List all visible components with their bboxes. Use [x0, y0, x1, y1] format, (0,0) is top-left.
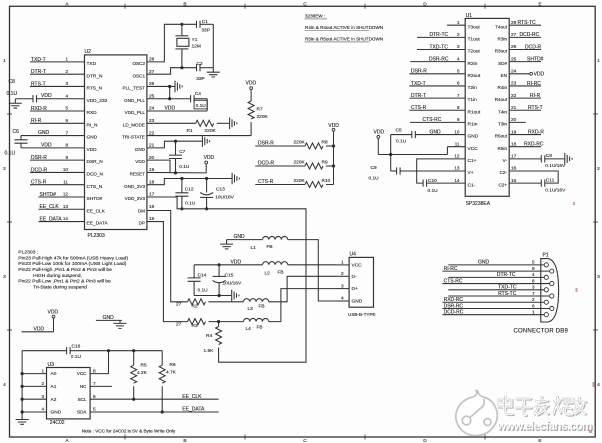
svg-text:8: 8 — [65, 143, 68, 148]
svg-text:220K: 220K — [205, 128, 217, 134]
svg-text:OSC1: OSC1 — [132, 73, 145, 78]
svg-text:33P: 33P — [201, 28, 210, 34]
junction C13 top — [205, 177, 208, 180]
U2 pin 12 SHTD# — [63, 192, 103, 202]
wire net RXD-R to U1 pin 19 — [509, 129, 544, 135]
wire RESET (U2 pin 19) to VDD — [147, 171, 206, 173]
U4 pin 3 D+ — [336, 283, 358, 292]
svg-text:1: 1 — [65, 57, 68, 62]
svg-text:Pin22 Pull-High ,Pin1 & Pin2 &: Pin22 Pull-High ,Pin1 & Pin2 & Pin3 will… — [18, 267, 112, 273]
wire GND_PLL (U2 pin 25) — [147, 98, 191, 100]
svg-text:T4in: T4in — [498, 109, 507, 114]
svg-text:C2-: C2- — [500, 170, 508, 175]
svg-text:SCL: SCL — [78, 397, 87, 402]
svg-text:DSR_N: DSR_N — [87, 159, 104, 165]
svg-text:R2: R2 — [192, 303, 198, 309]
svg-text:0.1U: 0.1U — [5, 151, 16, 157]
svg-text:2: 2 — [41, 381, 44, 386]
svg-text:0.1U/16V: 0.1U/16V — [545, 187, 566, 193]
svg-text:27: 27 — [176, 302, 182, 308]
svg-text:TXD: TXD — [87, 61, 97, 67]
svg-text:R5: R5 — [141, 362, 147, 368]
U1 pin 11 VCC — [455, 141, 478, 151]
svg-text:SHTD#: SHTD# — [40, 192, 57, 198]
capacitor C8 0.1U/16V on U1 V- (pin 17) — [509, 153, 566, 169]
wire net EE_DATA to U2 pin 14 — [39, 216, 85, 222]
P1 pin 3 net TXD-TC — [448, 285, 548, 292]
svg-text:D+: D+ — [352, 286, 358, 292]
U2 pin 17 VDD_3V3 — [125, 192, 155, 201]
wire GND (U2 pin 21) to ground — [147, 141, 202, 148]
junction C7 top — [174, 140, 177, 143]
svg-text:12: 12 — [63, 192, 69, 197]
U1 pin 27 R3in — [498, 32, 517, 41]
capacitor C13 10U/16V — [200, 179, 235, 209]
svg-text:RTS-TC: RTS-TC — [518, 20, 537, 26]
svg-text:T2out: T2out — [468, 49, 481, 55]
svg-text:GND: GND — [51, 410, 62, 416]
svg-text:CTS-RC: CTS-RC — [444, 278, 463, 284]
svg-text:TRI-STATE: TRI-STATE — [122, 135, 145, 140]
svg-text:7: 7 — [457, 93, 460, 98]
svg-text:24C02: 24C02 — [50, 420, 65, 426]
U1 pin 13 V+ — [454, 166, 473, 176]
svg-text:C5: C5 — [396, 127, 402, 133]
U3 pin 5 SDA — [77, 407, 96, 415]
svg-text:RTS-T: RTS-T — [528, 105, 543, 111]
capacitor C14 0.1U — [188, 265, 209, 296]
svg-text:1: 1 — [457, 20, 460, 25]
svg-text:0.1U: 0.1U — [196, 103, 207, 109]
svg-text:GND: GND — [135, 147, 146, 152]
svg-text:TXD-TC: TXD-TC — [498, 285, 517, 291]
U2 pin 23 LD_MODE — [123, 118, 155, 127]
U1 pin 6 T2in — [457, 81, 477, 91]
svg-text:VDD: VDD — [48, 310, 59, 316]
svg-text:2: 2 — [532, 297, 535, 302]
svg-text:TXD-T: TXD-T — [31, 57, 46, 63]
svg-text:3: 3 — [532, 285, 535, 290]
junction R9 at VDD rail — [332, 164, 335, 167]
U2 pin 28 OSC2 — [132, 57, 154, 66]
svg-text:U2: U2 — [85, 49, 92, 55]
U2 pin 5 RXD — [65, 106, 97, 116]
svg-text:Pin22 Pull-Low ,Pin1 & Pin2 &: Pin22 Pull-Low ,Pin1 & Pin2 & Pin3 will … — [18, 279, 111, 285]
svg-text:VDD: VDD — [41, 142, 52, 148]
capacitor C10 0.1U (C1+/C1-) — [423, 178, 465, 194]
svg-text:5: 5 — [532, 260, 535, 265]
svg-text:VDD: VDD — [34, 327, 45, 333]
ground (rotated) at GND_3V3 — [232, 173, 239, 185]
connector P1 DB9 body — [514, 252, 569, 334]
svg-text:L1: L1 — [251, 245, 257, 251]
svg-text:EE_CLK: EE_CLK — [40, 204, 60, 210]
svg-text:5: 5 — [457, 69, 460, 74]
svg-text:3: 3 — [597, 274, 600, 280]
junction ladder A1 — [21, 385, 24, 388]
svg-text:1.5K: 1.5K — [204, 348, 215, 354]
svg-text:33P: 33P — [196, 76, 205, 82]
U1 pin 12 C1+ — [454, 154, 476, 164]
wire crystal caps to ground — [212, 24, 214, 67]
wire TRI-STATE (U2 pin 22) to R7 — [147, 135, 251, 137]
ground at L1 — [220, 234, 262, 249]
svg-text:4: 4 — [65, 93, 68, 98]
svg-text:L4: L4 — [246, 326, 252, 332]
U1 pin 14 C1- — [454, 178, 475, 188]
svg-text:R4in & R4out ACTIVE in SHUTDOW: R4in & R4out ACTIVE in SHUTDOWN — [305, 25, 383, 30]
svg-text:VDD: VDD — [41, 93, 52, 99]
U2 pin 13 EE_CLK — [63, 204, 106, 214]
wire VDD rail for pull-ups — [333, 131, 335, 184]
wire VDD rail to L2 (net VDD) — [194, 259, 262, 265]
svg-text:0.1U/16V: 0.1U/16V — [545, 163, 566, 169]
U1 pin 25 SD# — [498, 56, 517, 65]
capacitor C4 0.1U — [191, 91, 208, 109]
U2 pin 6 RI_N — [65, 118, 98, 128]
svg-text:SHTD#: SHTD# — [527, 56, 544, 62]
junction R6/SDA — [161, 410, 164, 413]
svg-text:D: D — [423, 438, 427, 443]
U2 pin 14 EE_DATA — [63, 216, 109, 226]
svg-text:C6: C6 — [13, 129, 20, 135]
U2 pin 1 TXD — [65, 57, 96, 67]
svg-text:220K: 220K — [294, 178, 306, 184]
wire OSC2 (U2 pin 28) to crystal — [147, 24, 197, 62]
power VDD tie at lower left — [22, 310, 59, 333]
svg-text:C7: C7 — [179, 149, 185, 155]
svg-text:10U/16V: 10U/16V — [215, 194, 234, 200]
wire net DTR-T to U2 pin 2 — [30, 69, 85, 75]
svg-text:4: 4 — [532, 272, 535, 277]
U2 pin 10 DCD_N — [63, 167, 104, 177]
svg-text:GND: GND — [234, 234, 246, 240]
resistor R6 4.7K pull-up — [159, 351, 176, 412]
svg-text:GND_3V3: GND_3V3 — [124, 184, 145, 189]
capacitor C6 0.1U between GND and VDD (U2 pins 7,8) — [5, 129, 85, 156]
svg-text:RXD-R: RXD-R — [31, 106, 47, 112]
wire L1 to USB GND — [288, 240, 336, 301]
U3 pin 7 NC — [80, 381, 96, 389]
svg-text:8: 8 — [93, 368, 96, 374]
junction R5/SCL — [132, 398, 135, 401]
svg-text:6: 6 — [532, 303, 535, 308]
svg-text:Tri-State during suspend: Tri-State during suspend — [33, 284, 87, 290]
resistor R1 220K — [187, 120, 230, 134]
capacitor C15 10U/16V — [213, 265, 242, 296]
note SP3238 shutdown annotation — [305, 14, 384, 42]
wire PLL_TEST (U2 pin 26) — [147, 85, 175, 87]
svg-text:C13: C13 — [216, 187, 225, 193]
svg-text:R4: R4 — [206, 333, 212, 339]
ferrite bead L4 FB — [244, 318, 269, 331]
ground (rotated) at R1 — [230, 118, 237, 130]
svg-text:DCD_N: DCD_N — [87, 172, 104, 178]
svg-text:11: 11 — [63, 179, 68, 184]
junction crystal bottom — [180, 66, 183, 69]
svg-text:VDD_PLL: VDD_PLL — [125, 110, 146, 115]
svg-text:C14: C14 — [198, 273, 207, 279]
wire VDD_PLL (U2 pin 24) net VDD — [147, 106, 207, 112]
P1 pin 2 net RXD-RC — [442, 297, 548, 304]
svg-text:Note : VCC for 24C02 is 5V & B: Note : VCC for 24C02 is 5V & Byte Write … — [82, 428, 176, 433]
wire VDD_3V3 (U2 pin 17) rail to R4 pull-up — [147, 197, 306, 362]
wire net RXD-RC to U1 pin 18 — [509, 142, 544, 148]
ground (rotated) at C14/C15 — [232, 290, 239, 302]
svg-text:E: E — [538, 1, 541, 7]
svg-text:VDD: VDD — [135, 159, 145, 164]
svg-text:GND_PLL: GND_PLL — [124, 98, 145, 103]
svg-text:220K: 220K — [257, 114, 269, 120]
svg-text:CTS-R: CTS-R — [31, 180, 47, 186]
svg-text:V+: V+ — [468, 170, 474, 176]
svg-text:C2+: C2+ — [498, 182, 507, 187]
power VDD at U1 — [374, 130, 385, 155]
svg-text:DSR-R: DSR-R — [31, 155, 47, 161]
svg-text:DM: DM — [138, 208, 145, 213]
svg-text:0.1U: 0.1U — [71, 354, 82, 360]
svg-text:GND: GND — [103, 315, 115, 321]
U2 pin 9 DSR_N — [65, 155, 103, 165]
wire L2 to USB VCC — [288, 264, 336, 266]
svg-text:13: 13 — [454, 166, 460, 171]
U1 pin 3 T2out — [457, 44, 480, 54]
svg-text:C4: C4 — [195, 91, 201, 97]
capacitor C5 0.1U on U1 GND pin 10 — [391, 127, 466, 144]
svg-text:L3: L3 — [248, 306, 254, 312]
svg-text:4: 4 — [341, 296, 344, 302]
svg-text:U4: U4 — [350, 251, 357, 257]
svg-text:DTR-T: DTR-T — [411, 93, 426, 99]
op-amp U2 PL2303 body — [85, 49, 147, 239]
svg-text:9: 9 — [65, 155, 68, 160]
svg-text:DTR-T: DTR-T — [31, 69, 46, 75]
svg-text:2: 2 — [341, 271, 344, 277]
svg-text:C: C — [303, 1, 307, 7]
junction GND_PLL — [168, 97, 171, 100]
svg-text:8: 8 — [532, 278, 535, 283]
svg-text:PL2303: PL2303 — [88, 233, 105, 239]
wire C4 to VDD_PLL — [206, 99, 208, 111]
svg-text:0.1U: 0.1U — [369, 175, 380, 181]
U4 pin 4 GND — [336, 296, 363, 305]
svg-text:VDD_3V3: VDD_3V3 — [125, 196, 146, 201]
svg-text:4.2K: 4.2K — [137, 370, 148, 376]
svg-text:SHTD#: SHTD# — [87, 196, 103, 202]
wire net EE_CLK (U3 SCL) — [90, 394, 219, 400]
wire net DCD-RC to U1 pin 27 — [509, 32, 541, 38]
svg-text:V-: V- — [503, 158, 508, 163]
svg-text:GND: GND — [352, 299, 363, 305]
svg-text:0.1U: 0.1U — [198, 288, 209, 294]
svg-text:DCD-RC: DCD-RC — [444, 310, 464, 316]
resistor R8 220K — [294, 139, 334, 149]
U2 pin 22 TRI-STATE — [122, 130, 155, 139]
wire net DSR-R to R8 — [255, 141, 305, 147]
svg-text:C12: C12 — [185, 187, 194, 193]
svg-text:www.elecfans.com: www.elecfans.com — [496, 420, 592, 433]
U4 pin 2 D- — [336, 271, 357, 280]
U2 pin 7 GND — [65, 130, 97, 140]
svg-text:A: A — [65, 438, 69, 443]
U1 pin 5 R2out — [457, 69, 481, 79]
svg-text:TXD-TC: TXD-TC — [430, 44, 449, 50]
svg-text:EE_DATA: EE_DATA — [182, 407, 205, 413]
U1 pin 21 T4in — [498, 105, 517, 114]
svg-text:3238EW :: 3238EW : — [305, 14, 325, 19]
svg-text:R3: R3 — [192, 323, 198, 329]
U1 pin 10 GND — [454, 129, 478, 139]
svg-text:D: D — [423, 1, 427, 7]
svg-text:2: 2 — [3, 166, 6, 172]
U2 pin 24 VDD_PLL — [125, 106, 155, 115]
svg-text:C: C — [303, 438, 307, 443]
svg-text:R5in: R5in — [498, 146, 508, 151]
wire L4 to USB D+ — [269, 289, 336, 322]
U2 pin 8 VDD — [65, 143, 97, 153]
svg-text:DCD-R: DCD-R — [525, 44, 541, 50]
svg-text:7: 7 — [532, 291, 535, 296]
junction C15 bottom — [218, 294, 221, 297]
wire net DSR-RC to U1 pin 4 — [410, 56, 465, 62]
watermark chinese text — [498, 396, 586, 416]
svg-text:220K: 220K — [294, 159, 306, 165]
svg-text:1: 1 — [597, 58, 600, 64]
U2 pin 15 DP — [139, 216, 155, 225]
junction R8 at VDD rail — [332, 144, 335, 147]
U2 pin 4 VDD_232 — [65, 93, 107, 103]
svg-text:RXD: RXD — [87, 110, 98, 116]
resistor R7 220K — [248, 101, 268, 136]
svg-text:P1: P1 — [543, 252, 549, 258]
svg-text:4: 4 — [597, 382, 600, 388]
P1 pin 4 net DTR-TC — [448, 272, 548, 279]
U1 pin 17 V- — [503, 154, 517, 163]
U1 pin 2 T1out — [457, 32, 480, 42]
svg-text:RTS-TC: RTS-TC — [498, 291, 517, 297]
svg-text:RESET: RESET — [130, 172, 146, 177]
wire net CTS-R to R10 — [255, 179, 305, 185]
wire net RTS-TC to U1 pin 28 — [509, 20, 541, 26]
svg-text:RI_N: RI_N — [87, 122, 98, 128]
capacitor C12 0.1U — [175, 179, 195, 209]
svg-text:R10: R10 — [322, 178, 331, 184]
junction ladder GND — [21, 410, 24, 413]
svg-text:DTR_N: DTR_N — [87, 73, 104, 79]
svg-text:C16: C16 — [72, 344, 81, 350]
svg-text:VCC: VCC — [468, 146, 479, 152]
svg-text:Y1: Y1 — [192, 37, 198, 43]
wire net RI-R to U1 pin 22 — [509, 93, 541, 99]
svg-text:0.1U: 0.1U — [179, 164, 190, 170]
svg-text:LD_MODE: LD_MODE — [123, 122, 145, 127]
svg-text:C11: C11 — [546, 177, 555, 183]
wire stub U3 NC (pin 7) — [90, 385, 112, 387]
U2 pin 18 GND_3V3 — [124, 179, 155, 188]
svg-text:R3in: R3in — [498, 36, 508, 41]
svg-text:RTS-T: RTS-T — [31, 81, 46, 87]
U2 pin 2 DTR_N — [65, 69, 103, 79]
svg-text:R5in & R5out ACTIVE in SHUTDOW: R5in & R5out ACTIVE in SHUTDOWN — [305, 37, 383, 42]
svg-text:9: 9 — [457, 117, 460, 122]
wire VDD rail at U1 (pins 10,11,13) — [378, 135, 465, 171]
svg-text:3: 3 — [457, 44, 460, 49]
svg-text:1: 1 — [532, 310, 535, 315]
svg-text:R8: R8 — [322, 140, 328, 146]
svg-text:3: 3 — [341, 283, 344, 289]
watermark www.elecfans.com — [496, 420, 593, 434]
connector U4 USB-B-TYPE body — [348, 251, 376, 317]
svg-text:R2out: R2out — [468, 73, 481, 79]
P1 pin 9 net RI-RC — [442, 266, 554, 273]
svg-text:FB: FB — [278, 269, 284, 275]
ground at U3 ladder — [16, 415, 29, 424]
U1 pin 18 R5in — [498, 141, 517, 150]
wire net RTS-T to U1 pin 21 — [509, 105, 542, 111]
svg-text:B: B — [183, 438, 186, 443]
wire net DCD-R to U2 pin 10 — [30, 167, 85, 173]
svg-text:RTS_N: RTS_N — [87, 86, 103, 92]
svg-text:9: 9 — [532, 266, 535, 271]
svg-text:T3in: T3in — [498, 122, 507, 127]
svg-text:12: 12 — [454, 154, 460, 159]
svg-text:12M: 12M — [192, 43, 201, 49]
svg-text:VDD: VDD — [231, 259, 242, 265]
svg-text:RI-RC: RI-RC — [444, 266, 458, 272]
wire net EE_CLK to U2 pin 13 — [39, 204, 85, 210]
svg-text:4: 4 — [3, 382, 6, 388]
svg-text:C8: C8 — [9, 79, 16, 85]
U2 pin 3 RTS_N — [65, 81, 102, 91]
svg-text:Pin23 Pull-High 47k for 500mA: Pin23 Pull-High 47k for 500mA (USB Heavy… — [18, 255, 128, 261]
svg-text:VCC: VCC — [77, 371, 87, 376]
watermark elecfans logo — [456, 391, 498, 436]
wire net EE_DATA (U3 SDA) — [90, 407, 219, 413]
capacitor C1 33P — [197, 19, 214, 33]
svg-text:DSR-R: DSR-R — [411, 69, 427, 75]
wire L3 to USB D- — [269, 276, 336, 302]
svg-text:CTS-RC: CTS-RC — [423, 117, 442, 123]
wire net SHTD# to U1 pin 25 — [509, 56, 543, 62]
U1 pin 15 C2+ — [498, 178, 516, 187]
resistor R5 4.2K pull-up — [131, 351, 148, 400]
svg-text:C1: C1 — [202, 19, 208, 25]
U3 pin 3 A2 — [22, 394, 57, 403]
wire net CTS-R to U1 pin 8 — [409, 105, 465, 111]
ground (rotated) at U1 V- — [565, 153, 572, 165]
svg-text:T4out: T4out — [495, 24, 507, 29]
junction ladder A2 — [21, 398, 24, 401]
power VDD at pull-up rail — [332, 128, 335, 131]
wire stub U1 T3in (pin 20) — [509, 121, 526, 123]
ferrite bead L3 FB — [244, 299, 269, 313]
svg-text:EE_DATA: EE_DATA — [87, 221, 109, 227]
svg-text:C10: C10 — [428, 178, 437, 184]
svg-text:GND: GND — [478, 260, 490, 266]
wire U1 EN (pin 24) to VDD — [509, 71, 544, 77]
svg-text:EN: EN — [501, 73, 507, 78]
svg-text:2: 2 — [65, 69, 68, 74]
capacitor C2 33P — [196, 61, 213, 82]
svg-text:VDD: VDD — [534, 71, 545, 77]
capacitor C16 0.1U — [22, 344, 162, 360]
U1 pin 16 C2- — [500, 166, 517, 175]
svg-text:U3: U3 — [48, 362, 55, 368]
svg-text:6: 6 — [65, 118, 68, 123]
svg-text:0.1U: 0.1U — [185, 201, 196, 207]
svg-text:RI-R: RI-R — [31, 118, 42, 124]
wire net RTS-T to U2 pin 3 — [30, 81, 85, 87]
